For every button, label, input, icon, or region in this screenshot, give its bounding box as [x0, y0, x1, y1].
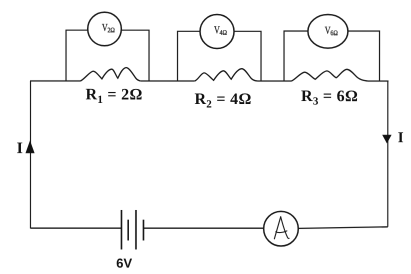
svg-text:I: I [17, 140, 23, 157]
svg-text:I: I [398, 130, 404, 146]
svg-text:2Ω: 2Ω [107, 26, 114, 34]
svg-text:6V: 6V [116, 256, 132, 271]
svg-text:6Ω: 6Ω [330, 29, 337, 37]
svg-text:R2 = 4Ω: R2 = 4Ω [194, 91, 251, 111]
svg-text:R1 = 2Ω: R1 = 2Ω [85, 86, 142, 106]
svg-text:4Ω: 4Ω [220, 29, 227, 37]
svg-text:R3 = 6Ω: R3 = 6Ω [301, 88, 358, 108]
